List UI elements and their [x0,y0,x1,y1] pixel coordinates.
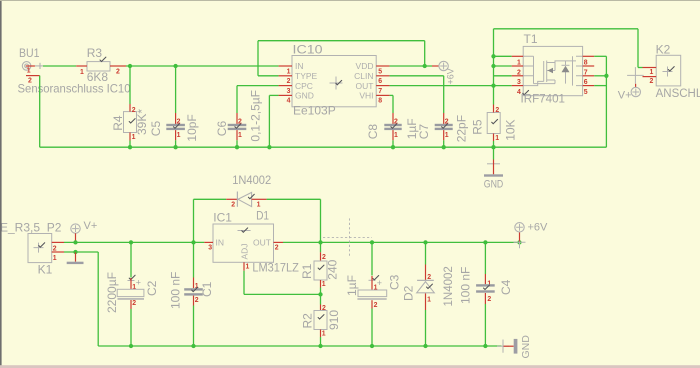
pin 1 of BU1 [26,65,35,67]
svg-text:OUT: OUT [253,237,271,247]
junction C8 bottom [391,145,395,149]
svg-text:1: 1 [132,284,136,291]
junction K1 gnd node [73,250,77,254]
resistor R2 [314,311,327,330]
svg-text:Sensoranschluss IC10: Sensoranschluss IC10 [18,82,131,96]
svg-text:C8: C8 [366,124,380,140]
pin 2 of R5 [493,105,495,113]
window border top edge [0,0,700,1]
wire bottom ground rail [98,345,501,347]
svg-text:K2: K2 [656,43,671,57]
pin 2 of C6 [236,113,238,124]
wire K1 pin1 ground branch [64,251,98,253]
wire C1 to bottom rail [193,306,195,347]
wire R4 to mid rail [129,141,131,148]
wire drain bus vertical [605,56,607,147]
pin 1 of C7 [443,130,445,140]
junction R2 bottom [318,344,322,348]
svg-text:1: 1 [374,285,378,292]
junction node C5 top [173,64,177,68]
svg-text:D1: D1 [256,208,269,222]
svg-text:2: 2 [650,78,654,85]
svg-text:1: 1 [246,264,250,271]
svg-text:V+: V+ [84,220,98,232]
capacitor C8 [384,124,401,126]
wire down to C3 [371,242,373,275]
svg-text:10pF: 10pF [185,114,199,141]
svg-text:ADJ: ADJ [240,243,250,259]
regulator IC1 box [213,224,274,262]
junction C2 top [129,240,133,244]
pin 1 of D1 [252,198,267,200]
wire VDD to +6V [390,65,432,67]
junction D2 top [423,240,427,244]
junction C3 bottom [370,344,374,348]
svg-text:R1: R1 [300,263,314,279]
svg-text:1µF: 1µF [405,118,419,139]
svg-text:2: 2 [495,107,499,114]
pin 2 of C7 [443,113,445,124]
wire C3 to bottom rail [371,309,373,347]
svg-text:+: + [136,278,141,288]
wire mid ground rail [40,146,607,148]
origin mark IC10 [330,77,343,90]
svg-text:IN: IN [216,237,225,247]
svg-text:IN: IN [295,61,304,71]
svg-text:4: 4 [517,89,521,96]
pin 1 of T1 [512,55,524,57]
svg-text:1: 1 [495,135,499,142]
capacitor C7 [435,124,453,126]
pin 8 of T1 [583,55,595,57]
svg-text:1: 1 [650,69,654,76]
wire T1 source bus vertical [493,29,495,105]
pin 1 of R4 [129,133,131,141]
pin 2 of R4 [129,104,131,112]
svg-text:C2: C2 [145,280,159,296]
junction R5 bottom [491,145,495,149]
junction V+ node [73,240,77,244]
svg-text:6K8: 6K8 [87,70,109,84]
pin 1 ADJ of IC1 [243,262,245,270]
pin 1 of C4 [484,274,486,284]
svg-text:1N4002: 1N4002 [232,173,271,187]
svg-text:IC1: IC1 [213,211,232,225]
wire up to D1 [193,199,195,242]
svg-text:5: 5 [584,89,588,96]
junction R1 top [318,240,322,244]
svg-text:2: 2 [195,297,199,304]
wire T1 top loop to K2 [494,28,639,30]
wire R3 to IC10 IN [126,65,279,67]
origin mark T1 [523,90,529,94]
origin mark C3 [369,279,376,281]
svg-text:2: 2 [487,296,491,303]
wire down to R4 [129,66,131,104]
svg-text:ANSCHLU: ANSCHLU [656,88,700,100]
pin 1 of C3 [371,276,373,290]
resistor R1 [314,261,327,280]
resistor R4 [124,112,137,133]
origin mark IC1 [238,230,251,232]
svg-text:1: 1 [177,132,181,139]
pin 1 of C2 [130,278,132,289]
capacitor C2 polarized [117,289,144,296]
ground GND bottom right [497,345,509,347]
pin 1 of R3 [76,65,87,67]
wire D2 to bottom rail [425,310,427,346]
svg-text:1: 1 [394,132,398,139]
svg-text:2: 2 [231,201,235,208]
svg-text:5: 5 [378,68,382,75]
junction T1 pin6 [604,74,608,78]
pin 1 of K2 [643,67,657,69]
supply +6V symbol top [439,61,448,70]
svg-text:K1: K1 [38,263,53,277]
wire IC10 OUT to T1 gate node [390,85,494,87]
V+ pin down [75,233,77,242]
junction ADJ node [318,292,322,296]
wire CLIN to C7 [390,75,444,77]
window border bottom strip [0,365,700,368]
wire down to R1 [320,242,322,252]
ground GND top [487,163,500,165]
junction C1 bottom [191,344,195,348]
capacitor C4 [476,284,495,286]
svg-text:1: 1 [80,69,84,76]
pin 1 of C5 [175,130,177,140]
svg-text:1µF: 1µF [345,275,359,296]
wire BU1 pin2 down to mid rail [39,76,41,148]
svg-text:TYPE: TYPE [295,71,318,81]
junction C4 top [483,240,487,244]
junction C4 bottom [483,344,487,348]
supply +6V bottom [514,236,526,248]
transistor T1 box [523,46,582,95]
pin 2 TYPE of IC10 [279,75,292,77]
junction T1 pin1 [491,54,495,58]
connector K1 box [28,234,52,263]
svg-text:C3: C3 [388,274,402,290]
junction T1 pin4 gate node [491,83,495,87]
svg-text:1: 1 [238,132,242,139]
pin 2 of D2 [425,265,427,281]
svg-text:1: 1 [27,68,31,75]
pin 3 CPC of IC10 [279,85,292,87]
svg-text:910: 910 [327,310,341,330]
resistor R3 [87,62,110,71]
pin 1 IN of IC10 [279,65,292,67]
supply +6V pin [432,65,439,67]
origin mark K2 [663,67,673,77]
pin 7 OUT of IC10 [376,85,389,87]
svg-text:8: 8 [378,98,382,105]
wire C2 to bottom rail [130,309,132,346]
svg-text:+6V: +6V [528,222,549,234]
wire down to D2 [425,242,427,264]
wire R1 to ADJ node [320,288,322,295]
wire C6 to mid rail [236,140,238,147]
wire IC10 GND pin to mid rail [269,94,278,96]
svg-text:R5: R5 [471,119,485,135]
pin 6 of T1 [583,75,595,77]
wire T1 pin6 [594,75,606,77]
svg-text:C4: C4 [499,279,513,295]
svg-text:2: 2 [275,245,279,252]
pin 1 of R5 [493,134,495,142]
svg-text:4: 4 [287,98,291,105]
pin 2 OUT of IC1 [274,241,284,243]
svg-text:+: + [377,278,382,288]
svg-text:R4: R4 [111,115,125,131]
wire T1 pin8 to drain bus [594,55,606,57]
svg-text:3: 3 [208,245,212,252]
junction D2 bottom [423,344,427,348]
wire to D1 anode [194,198,227,200]
pin 2 of K2 [643,76,657,78]
svg-text:7: 7 [378,88,382,95]
wire C5 to mid rail [175,140,177,147]
pin 2 of C8 [392,113,394,124]
wire IC1 OUT rail to +6V [283,241,520,243]
svg-text:D2: D2 [402,285,416,301]
svg-text:3: 3 [287,88,291,95]
pin 2 of C5 [175,113,177,124]
pin 4 of T1 [512,85,524,87]
svg-text:CPC: CPC [295,81,313,91]
wire to T1 pin3 [494,75,512,77]
origin mark C2 [128,280,135,282]
junction C6 bottom [235,145,239,149]
svg-text:6: 6 [378,78,382,85]
pin 3 of T1 [512,75,524,77]
svg-text:R3: R3 [87,46,103,60]
wire ADJ to R1/R2 node [243,271,245,295]
svg-text:1: 1 [53,255,57,262]
svg-text:100 nF: 100 nF [169,272,183,309]
supply V+ at K2 [627,67,644,84]
svg-text:OUT: OUT [356,81,374,91]
wire C8 to mid rail [392,140,394,147]
pin 2 of BU1 [26,75,40,77]
wire down to C4 [484,242,486,274]
svg-text:GND: GND [295,91,314,101]
wire down to C5 [175,66,177,113]
wire C7 to mid rail [443,140,445,147]
svg-text:2: 2 [132,300,136,307]
svg-text:1: 1 [322,281,326,288]
svg-text:2: 2 [116,69,120,76]
connector BU1 [22,62,31,71]
svg-text:C6: C6 [215,121,229,137]
wire down to C1 [193,242,195,277]
capacitor C5 [166,124,185,126]
pin 2 of D1 [226,198,237,200]
pin 1 of K1 [52,251,64,253]
capacitor C3 polarized [358,290,387,297]
svg-text:2: 2 [374,302,378,309]
svg-text:VDD: VDD [356,61,374,71]
junction C1/D1 node [191,240,195,244]
svg-text:C5: C5 [149,121,163,137]
junction R4 bottom [128,145,132,149]
svg-text:V+: V+ [618,90,632,102]
connector K2 box [656,55,681,86]
junction node VDD [423,64,427,68]
wire R5 to GND symbol [493,147,495,159]
junction node R4 top [128,64,132,68]
svg-text:1N4002: 1N4002 [443,266,455,306]
svg-text:GND: GND [484,179,504,191]
svg-text:LM317LZ: LM317LZ [252,263,299,275]
diode D2 [417,279,434,281]
svg-text:T1: T1 [524,32,538,46]
wire R2 to bottom rail [320,337,322,346]
pin 1 of R1 [320,280,322,288]
wire down to C2 [130,242,132,277]
pin 2 of R1 [320,252,322,261]
wire BU1 pin1 to R3 [43,65,76,67]
svg-text:1: 1 [257,201,261,208]
ground bar at K1 [67,262,84,264]
svg-text:C1: C1 [200,281,214,297]
supply V+ at K1 [71,224,80,233]
dashed crosshair marker [323,237,372,239]
pin 1 of C6 [236,130,238,140]
wire T1 pin5 [594,85,606,87]
svg-text:0,1-2,5µF: 0,1-2,5µF [249,90,263,142]
svg-text:10K: 10K [504,119,518,140]
capacitor C1 [184,288,203,290]
op-amp IC10 box [292,56,376,107]
pin 2 of C3 [371,300,373,308]
pin 1 of R2 [320,330,322,338]
wire TYPE-VDD top loop [258,40,425,42]
svg-text:100 nF: 100 nF [459,267,473,304]
wire C4 to bottom rail [484,304,486,346]
pin 5 of T1 [583,85,595,87]
wire ADJ node down to R2 [320,294,322,304]
svg-text:GND: GND [520,335,532,359]
svg-text:1: 1 [427,297,431,304]
svg-text:ME_R3,5_P2: ME_R3,5_P2 [0,221,62,235]
pin 8 VHI of IC10 [376,94,389,96]
junction IC10 GND [267,145,271,149]
origin mark K1 [34,243,44,253]
wire K1 pin2 to IC1 IN rail [64,241,204,243]
svg-text:IC10: IC10 [293,43,323,57]
svg-text:CLIN: CLIN [354,71,373,81]
wire to T1 pin4 [494,85,512,87]
svg-text:39K*: 39K* [135,109,149,135]
capacitor C6 [228,124,247,126]
svg-text:1: 1 [322,330,326,337]
wire VHI to C8 [390,94,393,96]
pin 7 of T1 [583,65,595,67]
pin 2 of T1 [512,65,524,67]
wire K1 pin1 down to bottom rail [97,252,99,346]
svg-text:BU1: BU1 [19,46,40,60]
wire D1 to OUT node [267,198,321,200]
ground pin at K1 [75,252,77,261]
wire IC10 CPC to C6 [237,85,279,87]
junction +6V end [517,240,521,244]
svg-text:1: 1 [287,68,291,75]
wire down to C6 [236,86,238,113]
pin 1 of D2 [425,293,427,310]
pin 1 of C8 [392,130,394,140]
svg-text:240: 240 [326,259,340,279]
pin 2 of C4 [484,293,486,304]
junction C5 bottom [173,145,177,149]
pin 2 of R3 [110,65,126,67]
pin 5 VDD of IC10 [376,65,389,67]
pin 2 of C1 [193,296,195,306]
window border left edge [0,0,2,368]
svg-text:2: 2 [287,78,291,85]
svg-text:+6V: +6V [446,68,456,84]
junction C3 top [370,240,374,244]
svg-text:R2: R2 [301,313,315,329]
junction T1 pin2 [491,64,495,68]
junction C2 bottom [129,344,133,348]
pin 2 of C2 [130,300,132,309]
pin 2 of R2 [320,305,322,311]
svg-text:1: 1 [445,132,449,139]
junction C7 bottom [442,145,446,149]
diode D1 [236,192,238,207]
pin 2 of K1 [52,241,64,243]
pin 6 CLIN of IC10 [376,75,389,77]
pin 3 IN of IC1 [204,241,213,243]
wire to T1 pin2 [494,65,512,67]
resistor R5 [487,113,500,134]
T1 mosfet internals [523,56,582,85]
svg-text:VHI: VHI [359,91,373,101]
pin 1 of C1 [193,278,195,289]
wire to T1 pin1 [494,55,512,57]
svg-text:2200µF: 2200µF [105,272,119,313]
svg-text:Ee103P: Ee103P [293,104,336,118]
svg-text:IRF7401: IRF7401 [521,92,566,106]
svg-text:22pF: 22pF [455,115,469,142]
pin 4 GND of IC10 [279,94,292,96]
